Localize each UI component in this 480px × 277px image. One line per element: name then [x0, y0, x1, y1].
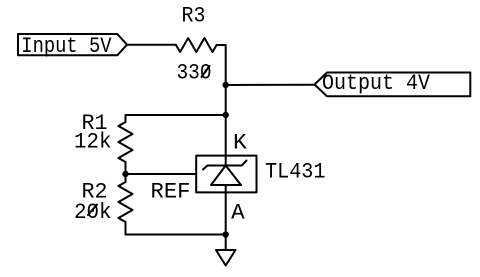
svg-text:Input 5V: Input 5V — [21, 34, 112, 59]
svg-text:Output 4V: Output 4V — [322, 71, 431, 96]
svg-text:A: A — [231, 201, 245, 226]
op-amp U1 TL431 box — [196, 156, 256, 193]
svg-text:REF: REF — [151, 180, 191, 205]
wire R2 to bottom — [126, 222, 226, 235]
junction node gnd — [223, 231, 229, 237]
junction node out — [223, 82, 229, 88]
svg-text:TL431: TL431 — [265, 160, 326, 185]
wire output — [226, 84, 315, 86]
zener bar — [203, 161, 247, 170]
wire branch to R1 — [126, 115, 226, 122]
resistor R1 — [119, 122, 133, 162]
resistor R2 — [119, 182, 133, 222]
label Output 4V flag — [315, 73, 471, 97]
svg-text:K: K — [233, 131, 248, 156]
ground — [216, 250, 236, 266]
wire REF — [126, 173, 197, 175]
wire R1 to junction — [125, 162, 127, 182]
svg-text:20k: 20k — [74, 200, 112, 225]
svg-text:R3: R3 — [182, 4, 206, 29]
wire anode — [225, 185, 227, 250]
junction node fb — [223, 112, 229, 118]
svg-text:12k: 12k — [74, 130, 112, 155]
svg-text:330: 330 — [177, 61, 212, 86]
junction node ref — [122, 171, 128, 177]
wire input tip to R3 — [127, 44, 176, 46]
slash zero in 330 — [202, 66, 210, 77]
slash zero in 20k — [88, 205, 97, 216]
resistor R3 — [176, 38, 217, 52]
label Input 5V flag — [18, 34, 127, 55]
zener triangle — [211, 166, 241, 186]
wire R3 to corner — [217, 45, 226, 166]
